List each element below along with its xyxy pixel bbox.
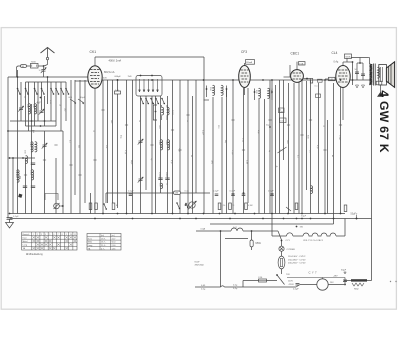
trimmer capacitor left 3 xyxy=(43,144,47,146)
electrolytic capacitor 1 xyxy=(356,63,358,80)
svg-text:CL4: CL4 xyxy=(332,51,338,55)
svg-text:300: 300 xyxy=(110,120,112,123)
oval resistor 140 on AVC xyxy=(174,191,181,194)
capacitor CBC1 out xyxy=(318,79,323,82)
node junctions left box xyxy=(17,76,19,78)
switch mains selector xyxy=(278,231,282,240)
coil 200 xyxy=(26,156,28,164)
svg-text:7600: 7600 xyxy=(165,140,167,146)
svg-text:✱ Mittelstellung: ✱ Mittelstellung xyxy=(26,253,43,256)
wire inner top bus xyxy=(26,81,67,83)
coil osc 7000 xyxy=(161,140,163,150)
coil L2 300 xyxy=(35,104,37,114)
capacitor 0.05 xyxy=(23,185,27,187)
svg-text:Kurz: Kurz xyxy=(23,237,27,239)
coil B-1991 xyxy=(17,170,19,182)
node junctions mid left xyxy=(9,157,11,159)
svg-text:82mA: 82mA xyxy=(246,61,252,64)
ground arrow below speaker xyxy=(378,92,384,96)
svg-text:(m): (m) xyxy=(101,235,104,237)
svg-text:0,1µF: 0,1µF xyxy=(201,130,203,136)
tube CK1 internal electrodes xyxy=(90,69,100,71)
lamp CY7 xyxy=(317,279,328,290)
resistor bottom b3 xyxy=(112,203,115,210)
resistor bottom b6 xyxy=(245,203,248,210)
wire 70V line xyxy=(287,277,345,279)
svg-text:4 GW 67 K: 4 GW 67 K xyxy=(377,90,391,153)
resistor power thick xyxy=(351,279,367,281)
svg-text:(m): (m) xyxy=(112,235,115,237)
resistor 140 under CK1 xyxy=(115,91,121,94)
resistor M5 xyxy=(250,240,253,247)
svg-text:110V: 110V xyxy=(288,281,293,283)
coil L4a xyxy=(35,142,37,152)
tube CK1 envelope xyxy=(88,66,102,88)
node top bus dots xyxy=(117,79,119,81)
svg-text:11: 11 xyxy=(74,234,76,236)
resistor hatching xyxy=(352,283,364,286)
wire left mid horizontal xyxy=(10,157,36,159)
wire mains bottom xyxy=(195,286,221,288)
svg-text:0,1µ: 0,1µ xyxy=(201,289,206,291)
svg-text:Mittel: Mittel xyxy=(23,240,28,243)
svg-text:72: 72 xyxy=(31,130,35,134)
wire left box verticals xyxy=(12,158,14,214)
table wavelength xyxy=(87,234,121,251)
svg-text:CF3: CF3 xyxy=(241,50,247,54)
svg-text:50µF: 50µF xyxy=(341,270,347,272)
svg-text:4µF: 4µF xyxy=(37,102,42,105)
svg-text:200-250V · CV1/2: 200-250V · CV1/2 xyxy=(288,263,306,265)
svg-text:0,1µF: 0,1µF xyxy=(13,216,19,218)
capacitor 0.059 xyxy=(158,177,162,179)
svg-text:(M): (M) xyxy=(280,150,283,152)
svg-text:Lang: Lang xyxy=(23,245,27,247)
svg-text:400V, 2mA: 400V, 2mA xyxy=(109,58,122,62)
svg-text:0,3M: 0,3M xyxy=(245,160,247,165)
wire CK1 grid left xyxy=(75,80,88,82)
terminal box below transformer xyxy=(376,81,382,85)
meter box CBC1 xyxy=(299,62,306,65)
svg-text:50k: 50k xyxy=(105,145,107,148)
meter box CL4 30mA xyxy=(345,54,352,58)
IF transformer 1 coil a xyxy=(213,85,215,95)
svg-text:5k: 5k xyxy=(190,155,192,157)
svg-text:150-180V · CV1/2: 150-180V · CV1/2 xyxy=(288,259,306,261)
electrolytic capacitor 2 xyxy=(362,63,364,80)
band switch unit box xyxy=(136,76,162,97)
output transformer secondary xyxy=(377,67,379,78)
wire mains vertical xyxy=(220,231,222,287)
svg-text:1MΩ: 1MΩ xyxy=(210,160,212,165)
svg-text:2kΩ: 2kΩ xyxy=(286,140,288,144)
svg-text:110-130V · CV1/2: 110-130V · CV1/2 xyxy=(288,256,306,258)
trimmer capacitor left 2 xyxy=(40,110,44,112)
resistor bottom b1 xyxy=(89,203,92,210)
coil osc 7600 xyxy=(168,140,170,150)
svg-text:CF3 CY1 CL4 CBC1: CF3 CY1 CL4 CBC1 xyxy=(303,240,324,242)
resistor 30 xyxy=(21,65,27,68)
wire left edge vertical xyxy=(7,77,9,219)
potentiometer with switch xyxy=(189,202,195,208)
svg-text:30µF: 30µF xyxy=(80,97,86,99)
meter box CF3 82mA xyxy=(246,60,255,65)
tube CF3 envelope xyxy=(239,66,251,88)
IF2 leads xyxy=(254,89,256,101)
svg-text:Lang: Lang xyxy=(88,245,92,247)
svg-text:0,1µF: 0,1µF xyxy=(213,191,219,193)
band switch wipers xyxy=(139,79,141,92)
wire mains top xyxy=(196,230,231,232)
switch contacts below box xyxy=(140,98,142,100)
svg-text:70V: 70V xyxy=(286,274,290,276)
svg-text:30mA: 30mA xyxy=(345,55,351,58)
electrolytic 50uF power xyxy=(344,278,346,285)
oscillator coil a xyxy=(162,107,164,115)
wire CL4 top line xyxy=(351,57,368,59)
svg-text:M: M xyxy=(116,205,118,207)
svg-text:50µF+: 50µF+ xyxy=(351,213,358,216)
resistor anode CBC1 xyxy=(310,79,312,84)
svg-text:B-1991: B-1991 xyxy=(15,170,17,178)
tube CBC1 envelope xyxy=(291,70,304,83)
svg-text:0,5A: 0,5A xyxy=(201,228,206,231)
svg-text:50: 50 xyxy=(24,96,26,98)
wire antenna input line xyxy=(18,65,44,67)
svg-text:7000: 7000 xyxy=(31,62,37,64)
heater winding CY1 xyxy=(287,233,293,236)
svg-text:16,7 -: 16,7 - xyxy=(101,242,106,244)
wire AVC line xyxy=(106,192,210,194)
svg-text:2: 2 xyxy=(37,234,38,236)
switch volume xyxy=(103,203,105,205)
svg-text:0,1µF: 0,1µF xyxy=(230,191,236,193)
tube CL4 internal electrodes xyxy=(338,69,348,71)
output transformer core xyxy=(373,64,375,86)
wire heater return line xyxy=(210,223,334,225)
switch AVC xyxy=(176,202,178,204)
IF transformer 1 coil b xyxy=(221,85,223,95)
trimmer capacitor 600 xyxy=(70,99,76,103)
node heater junction xyxy=(296,226,298,228)
svg-text:0,1µF: 0,1µF xyxy=(268,191,274,193)
resistor right 2 xyxy=(344,205,347,212)
svg-text:Kurz: Kurz xyxy=(88,238,92,240)
wire antenna to bus xyxy=(17,66,19,77)
svg-text:8: 8 xyxy=(62,234,63,236)
coil L3 xyxy=(31,142,33,152)
capacitor 1u xyxy=(31,162,35,164)
svg-text:0,1µF: 0,1µF xyxy=(293,289,299,291)
antenna xyxy=(41,48,55,54)
ground main with capacitor xyxy=(9,213,11,215)
capacitor 0.1u box xyxy=(280,118,287,123)
tube CL4 envelope xyxy=(336,66,350,88)
tube CF3 internal electrodes xyxy=(241,69,249,71)
svg-text:3955: 3955 xyxy=(165,172,167,178)
svg-text:7: 7 xyxy=(58,234,59,236)
coil L1 500 xyxy=(29,104,31,114)
IF1 leads xyxy=(207,88,213,90)
svg-text:10: 10 xyxy=(70,234,72,236)
small boxes osc xyxy=(316,94,321,97)
capacitor 600p dot xyxy=(117,79,119,81)
wire stub ticks xyxy=(101,109,104,111)
node antenna junction xyxy=(43,65,45,67)
switch band contacts xyxy=(17,88,19,90)
wire main top bus right xyxy=(102,79,372,81)
resistor right 1 xyxy=(295,203,298,210)
svg-text:2k: 2k xyxy=(186,120,188,122)
oscillator coil bracket xyxy=(153,105,157,120)
heater winding group xyxy=(303,233,336,236)
svg-text:3: 3 xyxy=(41,234,42,236)
trimmer capacitor padder 2 xyxy=(139,178,143,180)
svg-text:7kΩ: 7kΩ xyxy=(128,76,132,78)
svg-text:0,1µF: 0,1µF xyxy=(128,191,134,193)
wire left box horizontal 1 xyxy=(10,120,56,122)
svg-text:0,1µF: 0,1µF xyxy=(231,150,233,156)
trimmer capacitor left 1 xyxy=(19,107,23,109)
wire CBC1 top xyxy=(296,62,298,70)
svg-text:CK1: CK1 xyxy=(90,50,97,54)
svg-text:2k: 2k xyxy=(138,120,140,122)
svg-text:5: 5 xyxy=(49,234,50,236)
svg-text:0,4µ: 0,4µ xyxy=(334,61,339,64)
svg-text:250: 250 xyxy=(64,108,66,111)
svg-text:7000: 7000 xyxy=(158,140,160,146)
svg-text:0,1: 0,1 xyxy=(69,140,71,143)
trimmer capacitor padder 1 xyxy=(139,140,143,142)
svg-text:1k: 1k xyxy=(165,183,167,185)
svg-text:50k: 50k xyxy=(78,145,80,148)
tube CBC1 internal electrodes xyxy=(293,72,302,74)
svg-text:CY/RSR: CY/RSR xyxy=(287,249,296,251)
capacitor dot c4 xyxy=(243,192,245,194)
svg-text:C Y 7: C Y 7 xyxy=(309,271,318,275)
wire mid verticals xyxy=(102,80,104,214)
oscillator coil b xyxy=(167,107,169,115)
wire 400V plate line xyxy=(95,56,204,58)
wire heater chain xyxy=(272,235,287,237)
svg-text:Bereich: Bereich xyxy=(23,234,30,236)
wire lamp line xyxy=(296,285,300,288)
svg-text:-28V: -28V xyxy=(333,276,338,278)
svg-text:9: 9 xyxy=(66,234,67,236)
node box junctions xyxy=(140,75,142,77)
IF transformer 2 coil b xyxy=(268,88,270,98)
resistor bottom b2 xyxy=(95,203,98,210)
svg-text:1kΩ: 1kΩ xyxy=(158,125,160,129)
connector mark left xyxy=(18,194,22,198)
resistor 1k 2uA xyxy=(279,108,285,113)
potentiometer tone xyxy=(54,203,60,209)
svg-text:600pF: 600pF xyxy=(115,76,122,78)
tone box outline xyxy=(45,194,58,201)
coil 600 ohm xyxy=(161,183,163,188)
svg-text:-220V: -220V xyxy=(288,284,294,286)
svg-text:CBC1: CBC1 xyxy=(291,52,300,56)
svg-text:0,1: 0,1 xyxy=(296,155,298,158)
fuse F16 xyxy=(259,279,267,282)
svg-text:13,9 -: 13,9 - xyxy=(101,238,106,240)
barretter urdox xyxy=(278,256,285,269)
svg-text:0,1µF: 0,1µF xyxy=(338,135,340,141)
wire power right corner xyxy=(367,280,372,282)
svg-text:3-12: 3-12 xyxy=(49,100,51,104)
svg-text:80V,1mA: 80V,1mA xyxy=(104,70,115,74)
resistor 140 CL4 xyxy=(329,77,336,80)
capacitor 0.1u power xyxy=(296,283,300,285)
speck marks xyxy=(390,281,391,282)
svg-text:1,2k: 1,2k xyxy=(222,205,226,207)
svg-text:1: 1 xyxy=(33,234,34,236)
speaker xyxy=(379,65,387,86)
wire inner horizontal xyxy=(225,238,248,240)
trimmer feedback xyxy=(278,147,287,153)
table tuning ranges xyxy=(22,232,77,250)
wire lamp right xyxy=(328,284,344,286)
svg-text:4W/13kΩ: 4W/13kΩ xyxy=(195,265,204,267)
svg-text:M5Ω: M5Ω xyxy=(256,242,261,245)
resistor bottom b5 xyxy=(229,203,232,210)
svg-text:0,059: 0,059 xyxy=(158,172,160,178)
svg-text:15: 15 xyxy=(59,104,61,106)
svg-text:2000: 2000 xyxy=(29,170,31,176)
capacitor 2000b xyxy=(31,185,35,187)
svg-text:4,7 -: 4,7 - xyxy=(101,248,105,250)
svg-text:1mA: 1mA xyxy=(299,62,304,65)
capacitor 50u plus xyxy=(269,126,271,128)
svg-text:40V: 40V xyxy=(103,78,107,80)
svg-text:4: 4 xyxy=(45,234,46,236)
svg-text:21,4 -: 21,4 - xyxy=(101,245,106,247)
node bus dots xyxy=(102,213,104,215)
resistor bottom b4 xyxy=(218,203,221,210)
wire left box horizontal 3 xyxy=(8,130,63,132)
IF transformer 2 coil a xyxy=(259,88,261,98)
svg-text:4k: 4k xyxy=(331,155,333,157)
wire fuse line xyxy=(243,280,259,282)
wire lower bus xyxy=(10,218,372,220)
diag capacitor right 1 xyxy=(286,207,291,211)
svg-text:5600: 5600 xyxy=(171,110,173,116)
wire main top bus left xyxy=(8,76,88,78)
svg-text:N5Ω: N5Ω xyxy=(354,288,359,290)
output transformer primary winding xyxy=(370,64,373,85)
wire ground bus xyxy=(10,213,346,215)
trimmer capacitor 30uF xyxy=(78,99,84,103)
svg-text:6: 6 xyxy=(53,234,54,236)
lamp symbol CY RSR xyxy=(279,246,284,251)
switch mains onoff xyxy=(277,275,285,285)
wire CL4 bottom xyxy=(342,88,344,121)
svg-text:0,1µ: 0,1µ xyxy=(233,284,238,286)
svg-text:0,1µ: 0,1µ xyxy=(185,191,190,193)
capacitor 7000 xyxy=(31,63,39,68)
svg-text:NB: NB xyxy=(19,176,21,180)
svg-text:50µF: 50µF xyxy=(301,216,307,218)
mains choke humps xyxy=(231,228,243,231)
coil right small xyxy=(311,186,313,194)
capacitor 39550 xyxy=(165,177,169,179)
svg-text:0,3M: 0,3M xyxy=(248,205,253,207)
svg-text:0,1µ: 0,1µ xyxy=(233,288,238,290)
coil 2000 xyxy=(32,170,34,180)
wire left box horizontal 2 xyxy=(26,125,57,127)
